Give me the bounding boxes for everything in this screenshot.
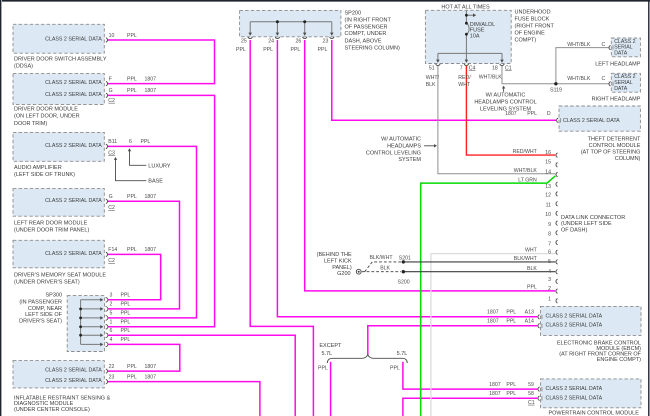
svg-text:BLK: BLK <box>380 266 390 272</box>
svg-text:S200: S200 <box>398 279 410 285</box>
svg-text:25: 25 <box>241 38 247 44</box>
svg-text:(IN PASSENGER: (IN PASSENGER <box>19 299 62 305</box>
svg-text:DRIVER'S MEMORY SEAT MODULE: DRIVER'S MEMORY SEAT MODULE <box>14 273 106 279</box>
svg-text:C2: C2 <box>108 98 115 104</box>
svg-text:AUDIO AMPLIFIER: AUDIO AMPLIFIER <box>14 165 62 171</box>
svg-text:1807: 1807 <box>489 382 501 388</box>
svg-text:A14: A14 <box>525 319 534 325</box>
svg-text:BLK/WHT: BLK/WHT <box>514 256 538 262</box>
svg-text:HEADLAMPS CONTROL: HEADLAMPS CONTROL <box>474 99 536 105</box>
svg-text:CONTROL MODULE: CONTROL MODULE <box>589 143 641 149</box>
svg-text:C3: C3 <box>108 150 115 156</box>
svg-text:PPL: PPL <box>290 47 300 53</box>
svg-text:PPL: PPL <box>127 247 137 253</box>
svg-text:PPL: PPL <box>127 374 137 380</box>
svg-text:PPL: PPL <box>390 365 400 371</box>
svg-text:PPL: PPL <box>121 302 131 308</box>
svg-text:RED/: RED/ <box>458 75 471 81</box>
svg-text:PPL: PPL <box>121 293 131 299</box>
svg-text:PPL: PPL <box>127 364 137 370</box>
svg-text:2: 2 <box>110 302 113 308</box>
svg-text:5.7L: 5.7L <box>321 351 332 357</box>
svg-text:F14: F14 <box>108 247 117 253</box>
svg-text:COMPT, UNDER: COMPT, UNDER <box>345 31 387 37</box>
svg-text:COMPT): COMPT) <box>515 38 537 44</box>
svg-text:(UNDER DRIVER'S SEAT): (UNDER DRIVER'S SEAT) <box>14 280 80 286</box>
svg-text:10: 10 <box>109 33 115 39</box>
svg-text:PPL: PPL <box>527 284 537 290</box>
svg-text:10A: 10A <box>470 33 480 39</box>
svg-text:CLASS 2 SERIAL DATA: CLASS 2 SERIAL DATA <box>546 314 603 320</box>
svg-text:C: C <box>601 76 605 82</box>
svg-text:PPL: PPL <box>127 88 137 94</box>
svg-text:11: 11 <box>546 203 551 209</box>
svg-text:LEFT KICK: LEFT KICK <box>324 258 352 264</box>
svg-text:7: 7 <box>460 65 463 71</box>
svg-text:CLASS 2 SERIAL DATA: CLASS 2 SERIAL DATA <box>45 37 102 43</box>
svg-text:1807: 1807 <box>487 319 499 325</box>
svg-text:(UNDER LEFT SIDE: (UNDER LEFT SIDE <box>561 221 612 227</box>
svg-text:23: 23 <box>323 38 329 44</box>
svg-text:5: 5 <box>548 259 551 265</box>
svg-text:A13: A13 <box>525 310 534 316</box>
svg-text:SP200: SP200 <box>345 10 362 16</box>
svg-text:15: 15 <box>545 160 551 166</box>
svg-text:CLASS 2 SERIAL DATA: CLASS 2 SERIAL DATA <box>563 118 620 124</box>
svg-text:LT GRN: LT GRN <box>518 177 537 183</box>
svg-text:COLUMN): COLUMN) <box>615 156 641 162</box>
svg-text:PPL: PPL <box>121 328 131 334</box>
svg-text:(UNDER DOOR TRIM PANEL): (UNDER DOOR TRIM PANEL) <box>14 228 89 234</box>
svg-text:C2: C2 <box>108 205 115 211</box>
svg-text:DRIVER DOOR MODULE: DRIVER DOOR MODULE <box>14 107 78 113</box>
svg-text:5: 5 <box>110 311 113 317</box>
svg-text:C: C <box>601 42 605 48</box>
svg-text:CLASS 2 SERIAL DATA: CLASS 2 SERIAL DATA <box>45 251 102 257</box>
svg-text:4: 4 <box>110 337 113 343</box>
svg-text:DASH, ABOVE: DASH, ABOVE <box>345 38 382 44</box>
svg-text:1807: 1807 <box>145 88 157 94</box>
svg-text:BLK/WHT: BLK/WHT <box>369 255 393 261</box>
svg-text:RED/WHT: RED/WHT <box>513 149 538 155</box>
svg-text:1807: 1807 <box>145 76 157 82</box>
svg-text:FUSE BLOCK: FUSE BLOCK <box>515 17 550 23</box>
svg-text:LEFT HEADLAMP: LEFT HEADLAMP <box>595 61 640 67</box>
svg-text:22: 22 <box>109 364 115 370</box>
svg-text:(RIGHT FRONT: (RIGHT FRONT <box>515 24 555 30</box>
svg-text:HEADLAMPS: HEADLAMPS <box>387 144 421 150</box>
svg-text:1807: 1807 <box>505 111 517 117</box>
svg-text:58: 58 <box>528 391 534 397</box>
svg-text:CLASS 2 SERIAL DATA: CLASS 2 SERIAL DATA <box>546 323 603 329</box>
svg-text:1807: 1807 <box>145 194 157 200</box>
svg-text:OF ENGINE: OF ENGINE <box>515 31 546 37</box>
svg-text:F: F <box>109 76 112 82</box>
svg-text:PPL: PPL <box>127 76 137 82</box>
svg-text:SP300: SP300 <box>45 293 62 299</box>
svg-text:1: 1 <box>548 296 551 302</box>
svg-text:3: 3 <box>110 293 113 299</box>
svg-text:LEFT REAR DOOR MODULE: LEFT REAR DOOR MODULE <box>14 221 88 227</box>
svg-text:D: D <box>547 111 551 117</box>
svg-text:B11: B11 <box>108 139 117 145</box>
svg-text:WHT/BLK: WHT/BLK <box>479 74 503 80</box>
svg-text:BLK: BLK <box>426 82 436 88</box>
svg-text:59: 59 <box>528 382 534 388</box>
svg-text:5.7L: 5.7L <box>397 351 408 357</box>
svg-text:(IN RIGHT FRONT: (IN RIGHT FRONT <box>345 18 392 24</box>
svg-text:23: 23 <box>109 374 115 380</box>
svg-text:4: 4 <box>548 269 551 275</box>
svg-text:DRIVER DOOR SWITCH ASSEMBLY: DRIVER DOOR SWITCH ASSEMBLY <box>14 56 107 62</box>
svg-text:PPL: PPL <box>127 194 137 200</box>
svg-text:G200: G200 <box>337 271 350 277</box>
svg-text:EXCEPT: EXCEPT <box>319 343 342 349</box>
svg-text:16: 16 <box>545 150 551 156</box>
svg-text:24: 24 <box>268 38 274 44</box>
svg-text:PPL: PPL <box>263 47 273 53</box>
svg-text:CONTROL LEVELING: CONTROL LEVELING <box>366 151 421 157</box>
svg-text:14: 14 <box>545 169 551 175</box>
svg-text:UNDERHOOD: UNDERHOOD <box>515 10 551 16</box>
svg-text:S201: S201 <box>399 256 411 262</box>
svg-text:6: 6 <box>110 328 113 334</box>
svg-text:WHT/: WHT/ <box>426 75 440 81</box>
svg-text:1: 1 <box>110 320 113 326</box>
svg-text:C2: C2 <box>108 258 115 264</box>
svg-text:WHT: WHT <box>525 248 538 254</box>
svg-text:10: 10 <box>545 212 551 218</box>
svg-text:PPL: PPL <box>506 391 516 397</box>
svg-text:2: 2 <box>548 286 551 292</box>
svg-text:THEFT DETERRENT: THEFT DETERRENT <box>588 136 641 142</box>
svg-text:LEFT SIDE OF: LEFT SIDE OF <box>25 312 63 318</box>
svg-text:1807: 1807 <box>145 364 157 370</box>
svg-text:WHT/BLK: WHT/BLK <box>567 42 591 48</box>
svg-text:CLASS 2 SERIAL DATA: CLASS 2 SERIAL DATA <box>45 368 102 374</box>
svg-text:12: 12 <box>545 193 551 199</box>
svg-text:RIGHT HEADLAMP: RIGHT HEADLAMP <box>592 97 641 103</box>
svg-text:WHT: WHT <box>458 82 471 88</box>
svg-text:CLASS 2 SERIAL DATA: CLASS 2 SERIAL DATA <box>45 198 102 204</box>
svg-text:6: 6 <box>548 250 551 256</box>
svg-text:STEERING COLUMN): STEERING COLUMN) <box>345 45 400 51</box>
svg-text:C4: C4 <box>469 65 476 71</box>
svg-text:(LEFT SIDE OF TRUNK): (LEFT SIDE OF TRUNK) <box>14 172 75 178</box>
svg-text:DRIVER'S SEAT): DRIVER'S SEAT) <box>19 319 62 325</box>
svg-text:C1: C1 <box>528 400 535 406</box>
svg-text:CLASS 2 SERIAL DATA: CLASS 2 SERIAL DATA <box>546 395 603 401</box>
svg-text:(ON LEFT DOOR, UNDER: (ON LEFT DOOR, UNDER <box>14 114 80 120</box>
svg-text:LUXURY: LUXURY <box>148 163 171 169</box>
svg-text:3: 3 <box>548 277 551 283</box>
svg-text:1807: 1807 <box>489 391 501 397</box>
svg-text:1807: 1807 <box>487 310 499 316</box>
svg-text:6: 6 <box>129 139 132 145</box>
svg-text:CLASS 2 SERIAL DATA: CLASS 2 SERIAL DATA <box>45 143 102 149</box>
svg-text:DATA: DATA <box>614 51 628 57</box>
svg-text:ENGINE COMPT): ENGINE COMPT) <box>597 357 641 363</box>
svg-text:WHT/BLK: WHT/BLK <box>567 76 591 82</box>
svg-text:CLASS 2 SERIAL DATA: CLASS 2 SERIAL DATA <box>45 92 102 98</box>
svg-text:C1: C1 <box>505 65 512 71</box>
svg-text:DATA: DATA <box>614 86 628 92</box>
svg-text:1807: 1807 <box>145 247 157 253</box>
svg-text:PPL: PPL <box>236 47 246 53</box>
svg-text:BLK: BLK <box>527 266 537 272</box>
svg-text:COMP, NEAR: COMP, NEAR <box>28 306 62 312</box>
svg-text:G: G <box>109 88 113 94</box>
svg-text:PPL: PPL <box>506 319 516 325</box>
svg-text:WHT/BLK: WHT/BLK <box>514 168 538 174</box>
svg-text:1807: 1807 <box>145 374 157 380</box>
svg-text:18: 18 <box>492 65 498 71</box>
svg-text:(BEHIND THE: (BEHIND THE <box>317 252 352 258</box>
svg-text:(AT TOP OF STEERING: (AT TOP OF STEERING <box>581 150 641 156</box>
svg-text:CLASS 2 SERIAL DATA: CLASS 2 SERIAL DATA <box>45 378 102 384</box>
svg-text:PPL: PPL <box>506 382 516 388</box>
svg-text:(UNDER CENTER CONSOLE): (UNDER CENTER CONSOLE) <box>14 407 90 413</box>
svg-text:OF PASSENGER: OF PASSENGER <box>345 24 388 30</box>
svg-text:PPL: PPL <box>318 365 328 371</box>
svg-text:BASE: BASE <box>148 179 163 185</box>
svg-text:OF DASH): OF DASH) <box>561 227 587 233</box>
svg-text:DATA LINK CONNECTOR: DATA LINK CONNECTOR <box>561 215 625 221</box>
svg-text:PPL: PPL <box>506 310 516 316</box>
svg-text:PPL: PPL <box>318 47 328 53</box>
svg-text:W/ AUTOMATIC: W/ AUTOMATIC <box>381 137 421 143</box>
svg-text:W/ AUTOMATIC: W/ AUTOMATIC <box>486 93 526 99</box>
svg-text:PPL: PPL <box>127 33 137 39</box>
svg-text:8: 8 <box>548 232 551 238</box>
svg-text:POWERTRAIN CONTROL MODULE: POWERTRAIN CONTROL MODULE <box>548 411 639 416</box>
svg-text:PPL: PPL <box>141 139 151 145</box>
svg-text:9: 9 <box>548 222 551 228</box>
svg-text:26: 26 <box>296 38 302 44</box>
svg-text:(DDSA): (DDSA) <box>14 63 33 69</box>
svg-text:PPL: PPL <box>527 111 537 117</box>
svg-text:13: 13 <box>545 184 551 190</box>
svg-text:S119: S119 <box>550 88 562 94</box>
svg-text:PPL: PPL <box>121 337 131 343</box>
svg-text:7: 7 <box>548 241 551 247</box>
svg-text:PPL: PPL <box>121 311 131 317</box>
svg-text:51: 51 <box>429 65 435 71</box>
svg-text:SYSTEM: SYSTEM <box>398 157 421 163</box>
svg-text:DOOR TRIM): DOOR TRIM) <box>14 121 47 127</box>
svg-text:HOT AT ALL TIMES: HOT AT ALL TIMES <box>441 5 490 11</box>
svg-text:CLASS 2 SERIAL DATA: CLASS 2 SERIAL DATA <box>546 386 603 392</box>
svg-text:CLASS 2 SERIAL DATA: CLASS 2 SERIAL DATA <box>45 80 102 86</box>
svg-text:G: G <box>109 194 113 200</box>
svg-text:PPL: PPL <box>121 320 131 326</box>
